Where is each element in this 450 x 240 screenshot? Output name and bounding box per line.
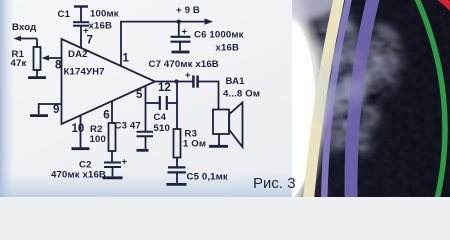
svg-text:8: 8 [55, 60, 62, 72]
svg-text:ВА1: ВА1 [226, 76, 246, 87]
ground (pin 10) [72, 147, 90, 150]
svg-text:+ 9 В: + 9 В [176, 5, 200, 16]
resistor R2 [109, 123, 116, 162]
wire pin 5 / C3 top [145, 86, 147, 131]
svg-text:C5 0,1мк: C5 0,1мк [187, 172, 228, 183]
loudspeaker BA1 [213, 103, 243, 148]
outer purple arc [351, 0, 450, 240]
ground (under R1) [28, 76, 46, 79]
capacitor C4 [146, 96, 178, 110]
wire pin 10 to ground [80, 116, 82, 148]
wire pin 1 / +9V rail with arrow [121, 18, 213, 66]
capacitor C1 [73, 7, 89, 37]
capacitor C3 [137, 132, 154, 149]
svg-text:1 Ом: 1 Ом [183, 139, 206, 150]
svg-text:+: + [122, 157, 128, 168]
svg-text:100: 100 [90, 134, 106, 145]
wiper wire to pin 8 [42, 55, 62, 61]
svg-text:+: + [182, 27, 188, 38]
cream arc [302, 0, 450, 240]
glow [234, 0, 330, 220]
svg-text:К174УН7: К174УН7 [64, 67, 105, 78]
capacitor C6 [171, 22, 191, 51]
svg-text:470мк х16В: 470мк х16В [51, 170, 106, 181]
svg-text:Вход: Вход [12, 22, 36, 33]
svg-text:9: 9 [53, 104, 59, 116]
svg-text:4...8 Ом: 4...8 Ом [223, 89, 260, 100]
svg-text:10: 10 [72, 123, 85, 135]
wire pin 9 to ground [39, 104, 62, 114]
svg-text:C6 1000мк: C6 1000мк [194, 30, 244, 41]
wire C7 to speaker [199, 82, 219, 110]
svg-text:510: 510 [154, 123, 170, 134]
svg-text:C4: C4 [154, 112, 167, 123]
input terminal Вход [14, 36, 38, 47]
ground (under C2) [103, 176, 123, 179]
svg-text:7: 7 [87, 35, 93, 47]
capacitor C2 [104, 157, 128, 177]
output wire pin 12 [155, 81, 193, 83]
svg-text:DA2: DA2 [68, 49, 88, 60]
svg-text:+: + [185, 70, 191, 81]
svg-text:Рис. 3: Рис. 3 [253, 175, 296, 192]
red arc [126, 0, 450, 240]
capacitor C5 [168, 167, 187, 183]
junction on rail [177, 20, 181, 24]
svg-text:х16В: х16В [89, 21, 113, 32]
svg-text:100мк: 100мк [90, 9, 119, 20]
svg-text:1: 1 [123, 53, 130, 65]
ground (pin 9) [30, 114, 48, 117]
svg-text:5: 5 [136, 89, 143, 101]
svg-text:6: 6 [103, 110, 109, 122]
svg-text:C1: C1 [58, 9, 71, 20]
svg-text:C3 47: C3 47 [115, 121, 141, 132]
svg-text:C7 470мк х16В: C7 470мк х16В [149, 59, 219, 70]
ground (under C5) [167, 183, 187, 186]
svg-text:47к: 47к [11, 58, 27, 69]
svg-text:12: 12 [158, 82, 171, 94]
svg-text:х16В: х16В [216, 43, 240, 54]
inner purple arc [324, 0, 450, 240]
wire pin 6 [111, 101, 113, 123]
ground (under C3) [137, 149, 149, 152]
wire output node down / resistor R3 [174, 82, 181, 167]
wire C1 to pin 7 [80, 26, 82, 48]
ground (under BA1) [209, 145, 228, 148]
ground (under C6) [172, 51, 190, 54]
junction on output [174, 79, 178, 83]
potentiometer R1 [34, 47, 41, 77]
op-amp DA2 K174УН7 [62, 39, 156, 124]
capacitor C7 [185, 70, 198, 88]
